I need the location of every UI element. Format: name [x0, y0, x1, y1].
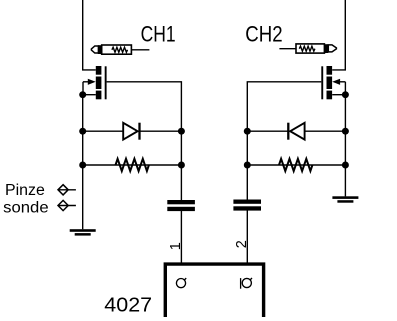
- node CH1 source junction: [79, 91, 86, 98]
- resistor R1 (CH1): [116, 159, 149, 171]
- node CH2 resistor row right: [342, 162, 349, 169]
- node CH1 resistor row left: [79, 162, 86, 169]
- ground GND1 (left): [70, 229, 96, 235]
- wire CH1 left rail down to ground: [82, 95, 84, 230]
- label 4027: [104, 293, 152, 316]
- connector pin sonde: [58, 200, 76, 210]
- svg-text:sonde: sonde: [3, 200, 49, 217]
- wire CH2 resistor row: [247, 164, 345, 166]
- wire CH1 resistor row: [83, 164, 182, 166]
- connector pin Pinze: [58, 185, 76, 195]
- label Pinze: [5, 182, 45, 199]
- pin label Q: [176, 278, 186, 288]
- label sonde: [3, 200, 49, 217]
- pin label Q-bar: [241, 278, 252, 289]
- svg-text:4027: 4027: [104, 293, 152, 316]
- capacitor C1 (CH1): [167, 200, 195, 211]
- wire pin 2 to IC: [246, 210, 248, 262]
- capacitor C2 (CH2): [233, 200, 261, 211]
- label CH1: [141, 22, 176, 47]
- IC U1 4027 box: [165, 264, 263, 317]
- wire CH2 gate to left rail: [247, 82, 321, 200]
- diode D2 (CH2): [288, 123, 304, 140]
- transistor Q1 (CH1 MOSFET): [83, 66, 107, 99]
- connector jack J2 (CH2 plug): [279, 44, 336, 53]
- node CH2 resistor row left: [244, 162, 251, 169]
- label CH2: [245, 22, 282, 47]
- svg-text:CH1: CH1: [141, 22, 176, 47]
- wire pin 1 to IC: [180, 211, 182, 263]
- wire CH2 drain feed from top: [332, 0, 345, 70]
- node CH2 diode row right: [342, 128, 349, 135]
- node CH2 diode row left: [244, 128, 251, 135]
- node CH1 diode row left: [79, 128, 86, 135]
- pin number 2: [234, 240, 250, 248]
- node CH1 resistor row right: [178, 162, 185, 169]
- svg-text:CH2: CH2: [245, 22, 282, 47]
- diode D1 (CH1): [123, 123, 139, 140]
- ground GND2 (right): [332, 196, 358, 202]
- transistor Q2 (CH2 MOSFET): [321, 66, 345, 99]
- pin number 1: [168, 242, 184, 250]
- resistor R2 (CH2): [279, 159, 312, 171]
- wire CH1 gate to right rail: [107, 82, 182, 200]
- wire CH1 drain feed from top: [83, 0, 96, 70]
- node CH2 source junction: [342, 91, 349, 98]
- wire CH2 right rail down to ground: [344, 95, 346, 197]
- node CH1 diode row right: [178, 128, 185, 135]
- wire CH1 diode row: [83, 130, 182, 132]
- connector jack J1 (CH1 plug): [91, 45, 149, 54]
- wire CH2 diode row: [247, 130, 345, 132]
- svg-text:Pinze: Pinze: [5, 182, 45, 199]
